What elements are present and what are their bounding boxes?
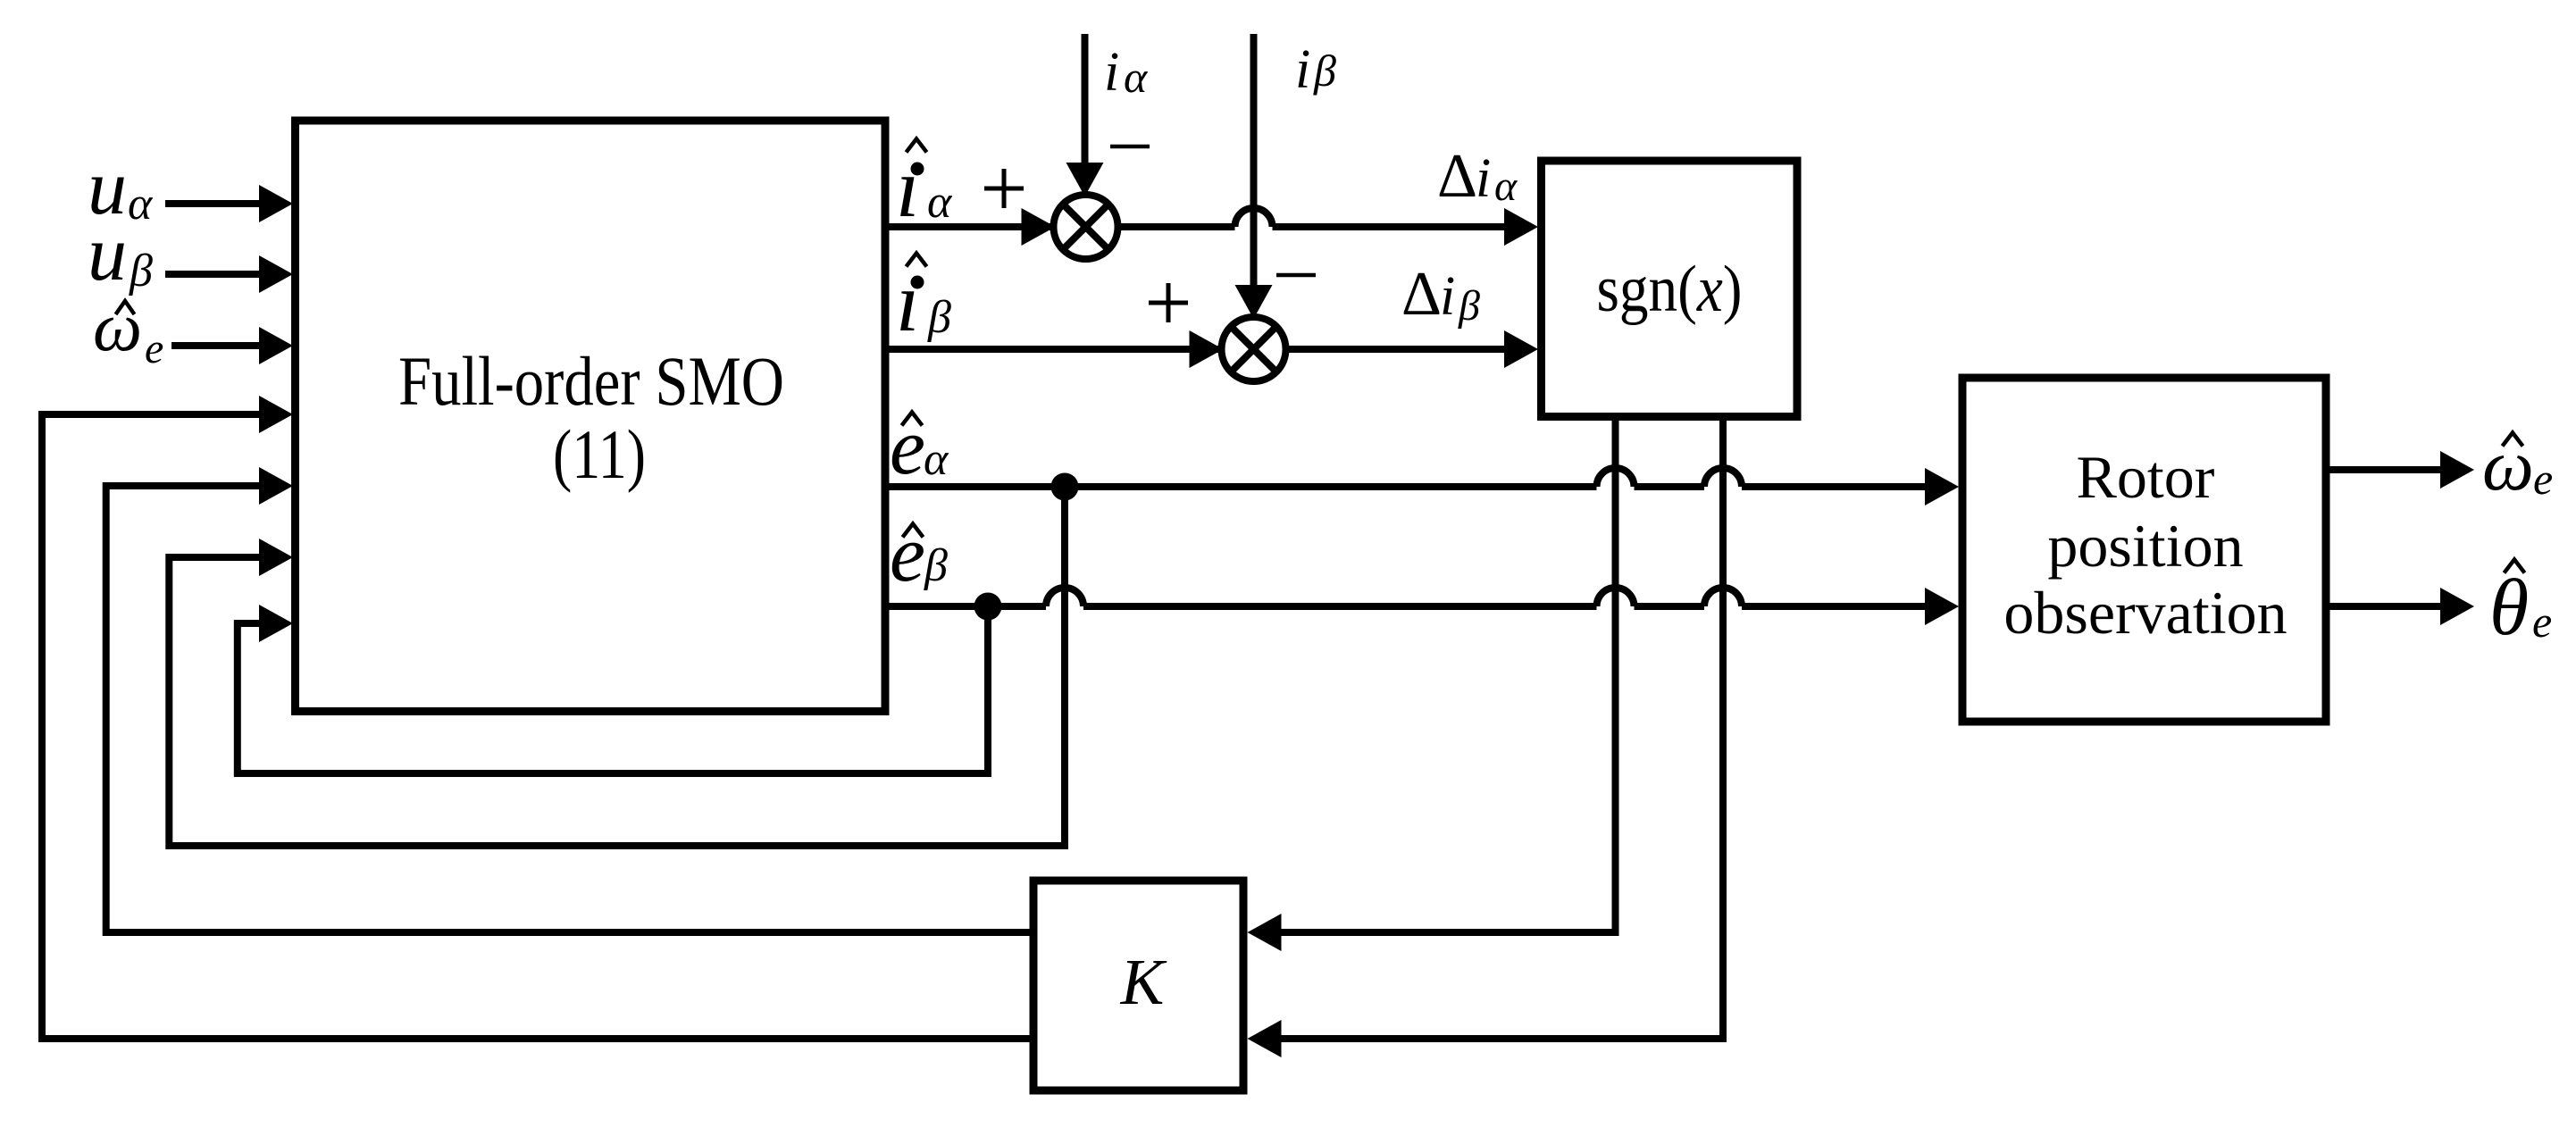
svg-text:e: e: [890, 403, 925, 491]
svg-text:α: α: [924, 434, 949, 485]
svg-text:β: β: [1458, 282, 1480, 330]
svg-text:i: i: [1295, 39, 1310, 100]
svg-text:u: u: [88, 211, 127, 297]
svg-text:α: α: [927, 177, 953, 228]
svg-text:(11): (11): [553, 415, 646, 493]
svg-text:e: e: [2533, 454, 2553, 504]
svg-text:i: i: [1440, 266, 1455, 327]
svg-text:β: β: [1313, 46, 1336, 96]
svg-text:i: i: [1476, 148, 1491, 209]
svg-text:e: e: [2532, 597, 2552, 647]
svg-text:α: α: [1494, 163, 1518, 210]
svg-text:e: e: [145, 325, 163, 372]
svg-text:ı: ı: [896, 140, 919, 235]
svg-text:ω: ω: [93, 288, 142, 365]
svg-text:Δ: Δ: [1401, 260, 1442, 329]
svg-text:α: α: [1124, 52, 1149, 102]
svg-text:β: β: [924, 540, 948, 591]
svg-text:i: i: [1104, 42, 1119, 103]
svg-text:Rotor: Rotor: [2077, 443, 2215, 511]
svg-text:ω: ω: [2482, 424, 2534, 505]
svg-text:α: α: [128, 179, 154, 230]
svg-text:sgn(x): sgn(x): [1597, 253, 1743, 326]
svg-text:θ: θ: [2489, 564, 2529, 652]
svg-text:β: β: [927, 292, 951, 343]
svg-text:K: K: [1120, 946, 1167, 1018]
svg-text:position: position: [2047, 512, 2243, 580]
svg-text:ı: ı: [896, 255, 919, 349]
svg-text:Δ: Δ: [1437, 142, 1477, 211]
svg-text:Full-order SMO: Full-order SMO: [398, 342, 784, 420]
svg-text:e: e: [890, 510, 925, 598]
svg-text:observation: observation: [2003, 579, 2287, 647]
